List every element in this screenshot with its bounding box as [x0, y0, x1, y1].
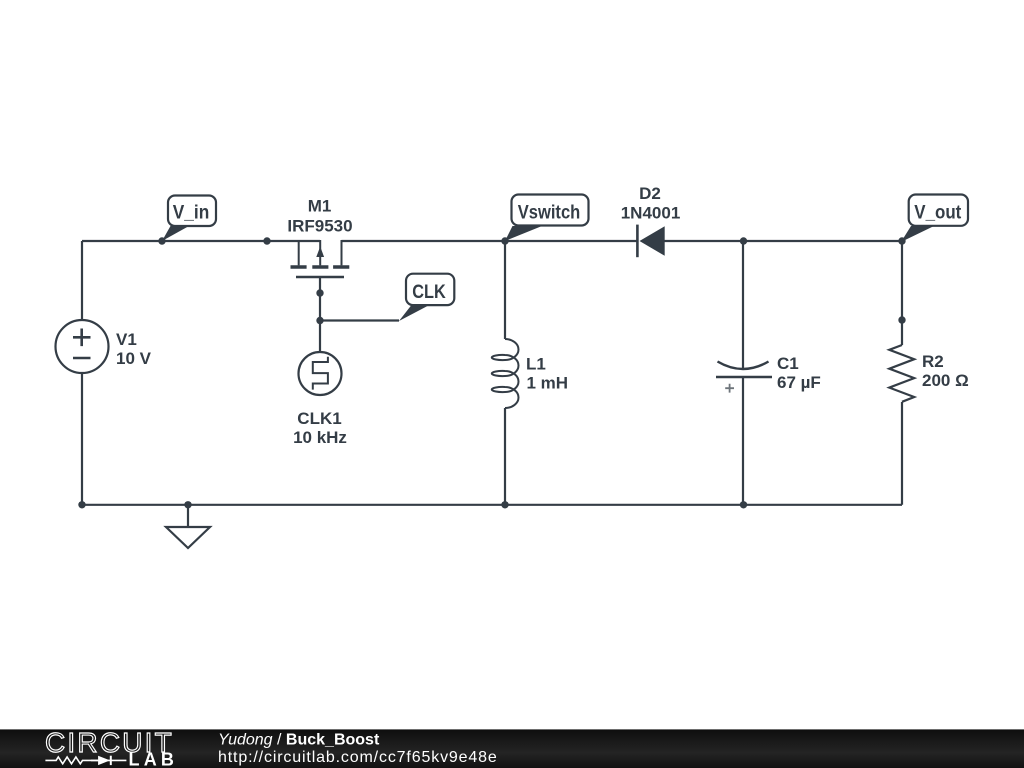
- svg-text:10 V: 10 V: [116, 349, 152, 368]
- wire ground stub: [187, 505, 189, 527]
- wire bottom rail: [82, 504, 902, 506]
- svg-text:Yudong / Buck_Boost: Yudong / Buck_Boost: [218, 732, 380, 749]
- svg-text:Vswitch: Vswitch: [518, 203, 581, 224]
- junction bottom rail left: [78, 501, 85, 508]
- svg-text:67 µF: 67 µF: [777, 373, 821, 392]
- wire L1 bottom lead: [504, 408, 506, 505]
- wire C1 bottom lead: [742, 377, 744, 505]
- junction C1 top: [740, 237, 747, 244]
- wire R2 bottom lead: [901, 402, 903, 505]
- svg-text:LAB: LAB: [129, 750, 179, 768]
- svg-text:L1: L1: [526, 355, 546, 374]
- resistor R2: [889, 345, 914, 402]
- svg-text:1N4001: 1N4001: [621, 204, 681, 223]
- wire top rail right segment (D2 to V_out corner): [665, 240, 903, 242]
- wire top rail left segment: [82, 240, 320, 242]
- wire M1 gate stub to CLK1: [319, 277, 321, 351]
- diode D2: [637, 225, 664, 258]
- junction ground: [184, 501, 191, 508]
- svg-text:V1: V1: [116, 330, 137, 349]
- junction M1 drain wire: [263, 237, 270, 244]
- svg-text:R2: R2: [922, 352, 944, 371]
- node flag CLK: [399, 274, 454, 321]
- node V_in junction: [158, 237, 165, 244]
- wire V_out drop to R2: [901, 241, 903, 345]
- node flag V_in: [162, 196, 216, 242]
- transistor M1 (PMOS): [291, 240, 350, 277]
- voltage source V1: [56, 320, 109, 373]
- wire L1 top lead: [504, 241, 506, 339]
- node flag Vswitch: [505, 195, 589, 242]
- clock source CLK1: [299, 352, 342, 395]
- node Vswitch junction: [501, 237, 508, 244]
- svg-text:10 kHz: 10 kHz: [293, 428, 347, 447]
- wire CLK branch: [320, 319, 399, 321]
- junction gate CLK branch: [316, 317, 323, 324]
- capacitor C1 (polarized): [716, 362, 772, 393]
- svg-text:C1: C1: [777, 354, 799, 373]
- svg-text:200 Ω: 200 Ω: [922, 371, 969, 390]
- svg-text:CLK1: CLK1: [297, 409, 341, 428]
- node flag V_out: [901, 195, 968, 243]
- junction C1 bottom: [740, 501, 747, 508]
- svg-text:D2: D2: [639, 184, 661, 203]
- node V_out junction: [898, 237, 905, 244]
- junction gate upper: [316, 289, 323, 296]
- inductor L1: [492, 339, 519, 408]
- svg-text:V_out: V_out: [914, 203, 962, 224]
- wire top rail middle segment (M1 to D2): [342, 240, 638, 242]
- svg-text:1 mH: 1 mH: [527, 374, 569, 393]
- wire C1 top lead: [742, 241, 744, 368]
- svg-text:IRF9530: IRF9530: [287, 217, 352, 236]
- junction R2 top: [898, 316, 905, 323]
- wire left rail top (V1 to top rail): [81, 241, 83, 320]
- svg-text:http://circuitlab.com/cc7f65kv: http://circuitlab.com/cc7f65kv9e48e: [218, 749, 498, 766]
- svg-text:V_in: V_in: [173, 203, 210, 224]
- svg-text:CLK: CLK: [412, 282, 446, 303]
- svg-text:M1: M1: [308, 197, 332, 216]
- logo resistor squiggle and diode: [45, 757, 126, 764]
- ground: [166, 527, 210, 548]
- footer bar: [0, 729, 1024, 768]
- junction L1 bottom: [501, 501, 508, 508]
- wire left rail bottom (V1 to bottom rail): [81, 374, 83, 505]
